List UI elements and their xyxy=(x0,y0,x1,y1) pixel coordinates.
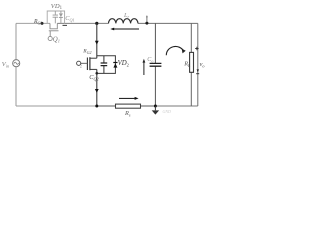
svg-text:GND: GND xyxy=(163,109,172,114)
svg-text:Co: Co xyxy=(147,57,153,63)
svg-text:RG1: RG1 xyxy=(33,19,42,25)
